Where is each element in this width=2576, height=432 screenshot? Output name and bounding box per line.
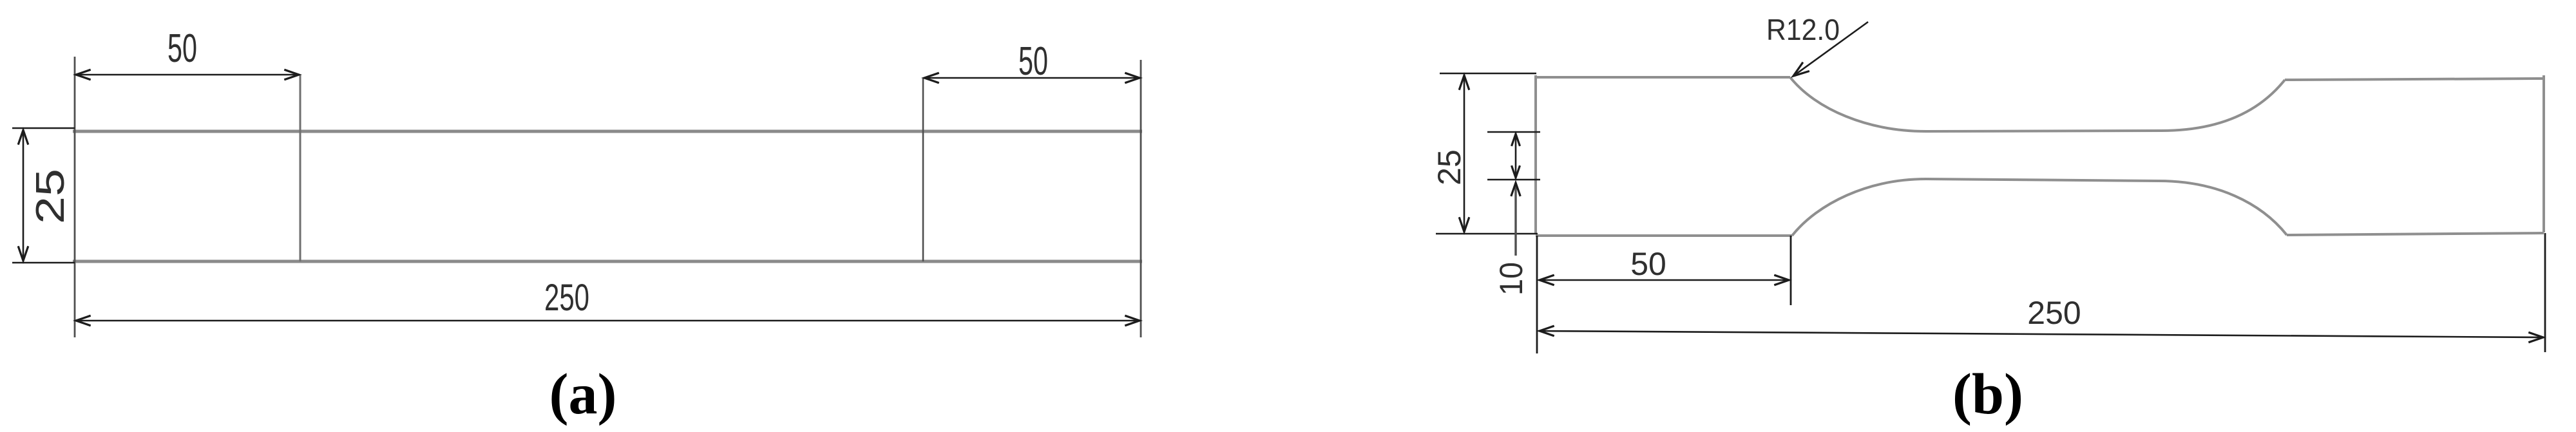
extension tick bottom of 25 dim (b) — [1436, 233, 1538, 235]
specimen (a) top edge — [73, 130, 1142, 133]
specimen (b) right edge — [2543, 75, 2545, 232]
left long extension line (b) — [1536, 236, 1538, 353]
specimen (a) left edge / extension line — [74, 57, 76, 337]
svg-text:50: 50 — [167, 26, 197, 71]
specimen (a) bottom edge — [73, 260, 1142, 263]
specimen (b) top-right fillet — [2161, 80, 2285, 131]
specimen (b) gauge bottom edge — [1926, 179, 2159, 181]
specimen (a) right edge / extension line — [1140, 60, 1142, 337]
extension tick top of 25 dim (b) — [1440, 73, 1536, 75]
right extension line of 50 dim (b) — [1790, 236, 1792, 305]
svg-text:50: 50 — [1018, 39, 1048, 84]
extension tick bottom of 25 dim (a) — [12, 262, 75, 264]
svg-text:10: 10 — [1493, 262, 1529, 296]
grip boundary line left (a) — [300, 75, 301, 261]
dimension line 250 (b) — [1540, 331, 2543, 337]
arrowhead right of 250 dim (a) — [1125, 315, 1140, 326]
arrowhead top of 25 dim (a) — [18, 130, 28, 145]
leader line of 10 dim below (b) — [1514, 183, 1516, 256]
arrowhead down of 10 dim (b) — [1512, 165, 1520, 178]
svg-text:25: 25 — [28, 169, 73, 224]
svg-text:25: 25 — [1431, 149, 1467, 185]
arrowhead left of 50 right dim (a) — [924, 73, 939, 83]
arrowhead left of 250 dim (b) — [1540, 326, 1554, 336]
arrowhead of radius leader (b) — [1793, 62, 1809, 76]
radius leader line R12.0 (b) — [1793, 22, 1868, 76]
svg-text:(a): (a) — [549, 362, 617, 426]
specimen (b) bottom-left fillet — [1792, 179, 1926, 236]
svg-text:50: 50 — [1630, 246, 1666, 282]
svg-text:(b): (b) — [1952, 362, 2023, 426]
dimension line 50 left (a) — [76, 74, 299, 76]
svg-text:250: 250 — [544, 277, 589, 319]
arrowhead up of 10 leader (b) — [1511, 183, 1520, 196]
dimension line 25 (b) — [1464, 75, 1465, 232]
dimension line 25 (a) — [23, 130, 24, 261]
gauge width tick upper (b) — [1487, 131, 1540, 133]
specimen (b) bottom grip edge right — [2287, 233, 2544, 235]
arrowhead right of 50 right dim (a) — [1125, 73, 1140, 83]
gauge width tick lower (b) — [1487, 179, 1540, 181]
specimen (b) top grip edge right — [2285, 79, 2544, 80]
arrowhead right of 250 dim (b) — [2528, 332, 2543, 343]
svg-text:R12.0: R12.0 — [1766, 13, 1840, 46]
dimension line 50 (b) — [1540, 279, 1789, 281]
arrowhead left of 250 dim (a) — [76, 315, 91, 326]
right extension line of 250 dim (b) — [2544, 233, 2546, 352]
arrowhead bottom of 25 dim (a) — [18, 246, 28, 261]
specimen (b) gauge top edge — [1926, 131, 2161, 131]
arrowhead up of 10 dim (b) — [1512, 134, 1520, 146]
arrowhead left of 50 dim (b) — [1540, 275, 1554, 285]
specimen (b) top grip edge left — [1536, 76, 1790, 79]
svg-text:250: 250 — [2027, 295, 2081, 331]
specimen (b) bottom grip edge left — [1536, 234, 1792, 237]
grip boundary line right (a) — [922, 79, 924, 261]
arrowhead top of 25 dim (b) — [1459, 75, 1469, 90]
specimen (b) top-left fillet R12 — [1790, 77, 1926, 131]
extension tick top of 25 dim (a) — [12, 127, 75, 129]
arrowhead right of 50 dim (b) — [1774, 275, 1789, 285]
dimension line 50 right (a) — [924, 77, 1140, 79]
arrowhead right of 50 dim (a) — [284, 70, 299, 80]
gauge width 10 double arrow (b) — [1515, 134, 1517, 178]
dimension line 250 (a) — [76, 320, 1140, 322]
arrowhead left of 50 dim (a) — [76, 70, 91, 80]
arrowhead bottom of 25 dim (b) — [1459, 217, 1469, 232]
specimen (b) left edge — [1534, 75, 1537, 234]
specimen (b) bottom-right fillet — [2159, 181, 2287, 235]
